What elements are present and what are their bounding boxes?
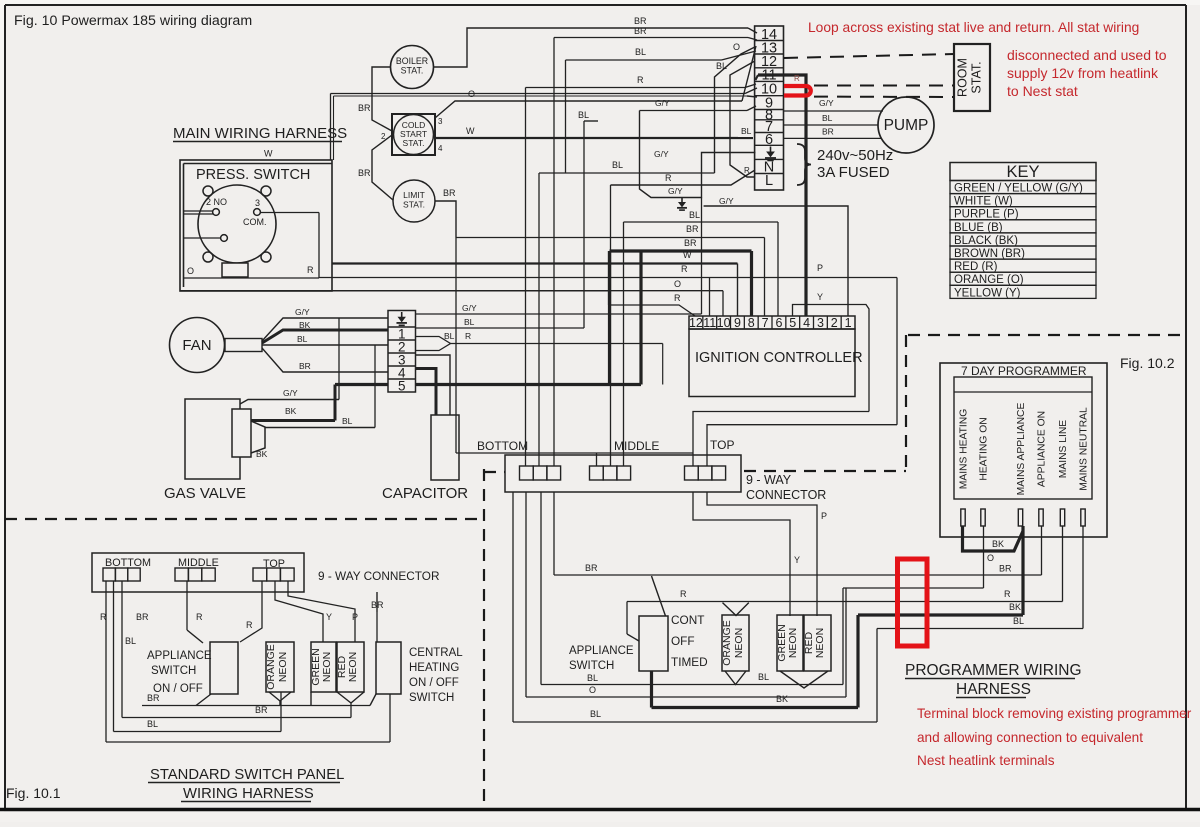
svg-text:G/Y: G/Y xyxy=(462,303,477,313)
svg-text:BK: BK xyxy=(285,406,297,416)
svg-text:1: 1 xyxy=(845,316,852,330)
svg-text:BL: BL xyxy=(689,210,700,220)
svg-text:R: R xyxy=(246,620,253,630)
svg-text:R: R xyxy=(681,264,688,274)
svg-text:APPLIANCE: APPLIANCE xyxy=(569,645,634,657)
svg-text:NEON: NEON xyxy=(347,652,359,682)
svg-text:NEON: NEON xyxy=(814,628,826,658)
svg-text:11: 11 xyxy=(703,316,716,330)
svg-text:APPLIANCE ON: APPLIANCE ON xyxy=(1037,411,1048,487)
svg-text:BL: BL xyxy=(822,113,833,123)
svg-text:MIDDLE: MIDDLE xyxy=(614,439,659,453)
svg-text:NEON: NEON xyxy=(787,628,799,658)
svg-text:Fig. 10.2: Fig. 10.2 xyxy=(1120,355,1175,371)
svg-text:BL: BL xyxy=(464,317,475,327)
svg-text:TOP: TOP xyxy=(710,438,734,452)
svg-text:BL: BL xyxy=(587,673,598,683)
svg-text:BROWN (BR): BROWN (BR) xyxy=(954,248,1025,260)
svg-text:3: 3 xyxy=(255,198,260,208)
svg-text:SWITCH: SWITCH xyxy=(569,660,614,672)
svg-text:BOTTOM: BOTTOM xyxy=(105,557,151,569)
svg-text:G/Y: G/Y xyxy=(654,149,669,159)
svg-text:G/Y: G/Y xyxy=(668,186,683,196)
svg-text:PUMP: PUMP xyxy=(884,117,929,134)
svg-text:10: 10 xyxy=(717,316,731,330)
svg-text:HEATING ON: HEATING ON xyxy=(979,417,990,480)
svg-text:BOTTOM: BOTTOM xyxy=(477,439,528,453)
svg-text:L: L xyxy=(765,173,773,189)
svg-text:BL: BL xyxy=(716,61,727,71)
svg-text:CONT: CONT xyxy=(671,613,704,627)
svg-text:MAINS NEUTRAL: MAINS NEUTRAL xyxy=(1079,407,1090,491)
svg-text:BR: BR xyxy=(443,188,456,198)
svg-text:MIDDLE: MIDDLE xyxy=(178,557,219,569)
svg-text:BR: BR xyxy=(255,705,268,715)
svg-text:STAT.: STAT. xyxy=(401,66,424,76)
svg-text:W: W xyxy=(264,149,273,159)
svg-text:O: O xyxy=(987,553,994,563)
svg-text:BL: BL xyxy=(297,334,308,344)
svg-text:BR: BR xyxy=(299,361,311,371)
svg-text:G/Y: G/Y xyxy=(295,307,310,317)
svg-text:OFF: OFF xyxy=(671,634,695,648)
svg-text:BOILER: BOILER xyxy=(396,56,428,66)
svg-text:NEON: NEON xyxy=(733,628,745,658)
svg-text:BR: BR xyxy=(634,26,647,36)
svg-text:BL: BL xyxy=(1013,616,1024,626)
svg-text:Nest heatlink terminals: Nest heatlink terminals xyxy=(917,753,1055,768)
svg-text:P: P xyxy=(352,612,358,622)
svg-text:P: P xyxy=(821,511,827,521)
svg-text:BR: BR xyxy=(147,693,160,703)
svg-text:STAT.: STAT. xyxy=(403,138,425,148)
svg-text:4: 4 xyxy=(438,144,443,153)
svg-text:SWITCH: SWITCH xyxy=(409,692,454,704)
svg-text:O: O xyxy=(187,266,194,276)
svg-text:Y: Y xyxy=(326,612,332,622)
svg-text:ORANGE: ORANGE xyxy=(265,644,277,690)
svg-text:CENTRAL: CENTRAL xyxy=(409,647,463,659)
svg-text:CONNECTOR: CONNECTOR xyxy=(746,488,826,502)
svg-text:BL: BL xyxy=(741,126,752,136)
svg-text:NEON: NEON xyxy=(277,652,289,682)
svg-text:Y: Y xyxy=(817,292,823,302)
svg-text:MAINS HEATING: MAINS HEATING xyxy=(959,409,970,489)
svg-text:BL: BL xyxy=(342,416,353,426)
svg-text:R: R xyxy=(674,293,681,303)
svg-text:YELLOW (Y): YELLOW (Y) xyxy=(954,287,1021,299)
svg-text:7: 7 xyxy=(762,316,769,330)
svg-text:7 DAY PROGRAMMER: 7 DAY PROGRAMMER xyxy=(961,364,1087,378)
svg-text:ORANGE (O): ORANGE (O) xyxy=(954,274,1024,286)
svg-text:O: O xyxy=(468,89,475,99)
svg-text:4: 4 xyxy=(803,316,810,330)
svg-text:BK: BK xyxy=(256,449,268,459)
svg-text:BR: BR xyxy=(822,127,834,137)
svg-text:GREEN / YELLOW (G/Y): GREEN / YELLOW (G/Y) xyxy=(954,183,1083,195)
svg-text:STANDARD SWITCH PANEL: STANDARD SWITCH PANEL xyxy=(150,767,344,783)
svg-text:BL: BL xyxy=(578,110,589,120)
svg-text:KEY: KEY xyxy=(1006,163,1039,181)
svg-text:BK: BK xyxy=(299,320,311,330)
svg-text:PRESS. SWITCH: PRESS. SWITCH xyxy=(196,167,310,183)
svg-text:Fig. 10.1: Fig. 10.1 xyxy=(6,785,61,801)
svg-text:IGNITION CONTROLLER: IGNITION CONTROLLER xyxy=(695,350,863,366)
svg-text:BR: BR xyxy=(585,563,598,573)
svg-text:9 - WAY CONNECTOR: 9 - WAY CONNECTOR xyxy=(318,569,439,583)
svg-text:BR: BR xyxy=(358,103,371,113)
svg-text:R: R xyxy=(680,589,687,599)
svg-text:BK: BK xyxy=(1009,602,1021,612)
svg-text:BL: BL xyxy=(612,160,623,170)
svg-text:WIRING HARNESS: WIRING HARNESS xyxy=(183,786,314,802)
svg-text:W: W xyxy=(466,126,475,136)
svg-text:BK: BK xyxy=(776,694,788,704)
svg-text:ON / OFF: ON / OFF xyxy=(409,677,459,689)
svg-text:8: 8 xyxy=(748,316,755,330)
svg-text:PROGRAMMER WIRING: PROGRAMMER WIRING xyxy=(905,662,1082,679)
svg-text:BR: BR xyxy=(136,612,149,622)
svg-text:to Nest stat: to Nest stat xyxy=(1007,83,1078,99)
svg-text:3: 3 xyxy=(817,316,824,330)
svg-text:2: 2 xyxy=(831,316,838,330)
svg-text:BK: BK xyxy=(992,539,1004,549)
svg-text:BR: BR xyxy=(634,16,647,26)
svg-text:ON / OFF: ON / OFF xyxy=(153,683,203,695)
svg-text:5: 5 xyxy=(789,316,796,330)
svg-text:BL: BL xyxy=(590,709,601,719)
svg-text:COM.: COM. xyxy=(243,217,267,227)
svg-text:6: 6 xyxy=(765,132,773,148)
svg-text:FAN: FAN xyxy=(182,337,211,354)
svg-text:BR: BR xyxy=(686,224,699,234)
svg-text:5: 5 xyxy=(398,379,406,394)
svg-text:CAPACITOR: CAPACITOR xyxy=(382,485,468,502)
svg-text:BL: BL xyxy=(147,719,158,729)
svg-text:BR: BR xyxy=(358,168,371,178)
svg-text:MAINS LINE: MAINS LINE xyxy=(1058,420,1069,478)
svg-text:R: R xyxy=(1004,589,1011,599)
svg-text:STAT.: STAT. xyxy=(970,61,984,93)
svg-text:O: O xyxy=(674,279,681,289)
svg-text:HARNESS: HARNESS xyxy=(956,681,1031,698)
svg-text:BLUE (B): BLUE (B) xyxy=(954,222,1003,234)
svg-text:MAINS APPLIANCE: MAINS APPLIANCE xyxy=(1016,403,1027,496)
svg-text:Loop across existing stat live: Loop across existing stat live and retur… xyxy=(808,20,1139,35)
svg-text:SWITCH: SWITCH xyxy=(151,665,196,677)
svg-text:Fig. 10 Powermax 185 wiring di: Fig. 10 Powermax 185 wiring diagram xyxy=(14,13,252,29)
svg-text:BLACK (BK): BLACK (BK) xyxy=(954,235,1018,247)
svg-text:G/Y: G/Y xyxy=(283,388,298,398)
svg-text:R: R xyxy=(307,265,314,275)
svg-text:Y: Y xyxy=(794,555,800,565)
svg-text:STAT.: STAT. xyxy=(403,200,425,210)
svg-text:BL: BL xyxy=(125,636,136,646)
svg-text:RED (R): RED (R) xyxy=(954,261,998,273)
svg-text:MAIN WIRING HARNESS: MAIN WIRING HARNESS xyxy=(173,125,347,142)
svg-text:12: 12 xyxy=(689,316,703,330)
svg-text:R: R xyxy=(794,74,800,83)
svg-text:ORANGE: ORANGE xyxy=(721,620,733,666)
svg-text:R: R xyxy=(100,612,107,622)
svg-text:ROOM: ROOM xyxy=(956,58,970,97)
svg-text:G/Y: G/Y xyxy=(819,98,834,108)
svg-text:O: O xyxy=(733,42,740,52)
svg-text:TIMED: TIMED xyxy=(671,655,708,669)
svg-text:6: 6 xyxy=(775,316,782,330)
svg-text:NEON: NEON xyxy=(321,652,333,682)
svg-text:PURPLE (P): PURPLE (P) xyxy=(954,209,1019,221)
svg-text:P: P xyxy=(817,263,823,273)
svg-text:BL: BL xyxy=(444,331,455,341)
svg-text:WHITE (W): WHITE (W) xyxy=(954,196,1013,208)
svg-text:R: R xyxy=(744,166,750,175)
svg-text:3: 3 xyxy=(438,117,443,126)
svg-text:and allowing connection to equ: and allowing connection to equivalent xyxy=(917,730,1143,745)
svg-text:BR: BR xyxy=(684,238,697,248)
svg-text:R: R xyxy=(465,331,471,341)
svg-text:LIMIT: LIMIT xyxy=(403,190,425,200)
svg-text:O: O xyxy=(589,685,596,695)
svg-text:APPLIANCE: APPLIANCE xyxy=(147,650,212,662)
svg-text:GAS VALVE: GAS VALVE xyxy=(164,485,246,502)
svg-text:R: R xyxy=(637,75,644,85)
svg-text:R: R xyxy=(665,173,672,183)
svg-text:Terminal block removing existi: Terminal block removing existing program… xyxy=(917,706,1192,721)
svg-text:2 NO: 2 NO xyxy=(206,197,227,207)
svg-text:HEATING: HEATING xyxy=(409,662,459,674)
svg-text:240v~50Hz: 240v~50Hz xyxy=(817,147,893,164)
svg-text:R: R xyxy=(196,612,203,622)
svg-text:supply 12v from heatlink: supply 12v from heatlink xyxy=(1007,65,1159,81)
svg-text:BR: BR xyxy=(999,564,1012,574)
svg-text:BL: BL xyxy=(635,47,646,57)
svg-text:9: 9 xyxy=(734,316,741,330)
svg-text:3A FUSED: 3A FUSED xyxy=(817,164,890,181)
svg-text:BL: BL xyxy=(758,672,769,682)
svg-text:9 - WAY: 9 - WAY xyxy=(746,473,792,487)
svg-text:G/Y: G/Y xyxy=(655,98,670,108)
svg-text:disconnected and used to: disconnected and used to xyxy=(1007,47,1167,63)
svg-text:G/Y: G/Y xyxy=(719,196,734,206)
